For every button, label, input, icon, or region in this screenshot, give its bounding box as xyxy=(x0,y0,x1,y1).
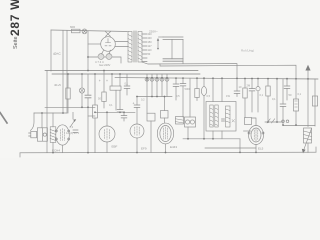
svg-text:127: 127 xyxy=(148,45,153,48)
capacitor C15 xyxy=(117,90,123,112)
mains plug xyxy=(29,131,37,137)
wire bottom bus y139 xyxy=(183,138,240,140)
lamp symbol xyxy=(79,74,84,107)
trimmer circles pair xyxy=(282,120,285,123)
heater choke Lb xyxy=(106,54,112,60)
wire rectifier anode taps xyxy=(115,42,128,47)
antenna coil L3 xyxy=(50,127,56,143)
svg-text:EF9: EF9 xyxy=(141,147,147,151)
capacitor C16 plus xyxy=(133,97,140,125)
svg-text:150: 150 xyxy=(148,41,153,44)
tube V5 EL output xyxy=(157,123,173,153)
resistor R8 xyxy=(266,79,270,122)
svg-text:0,1: 0,1 xyxy=(260,93,264,97)
filter capacitor C1 xyxy=(159,37,184,64)
tube V4 EF9 xyxy=(130,124,144,153)
wire horizontal y122 right xyxy=(265,121,283,123)
transformer T1 secondary winding xyxy=(138,32,142,63)
capacitor C17 xyxy=(124,74,130,95)
heater choke La xyxy=(98,54,104,60)
wire heater links xyxy=(88,57,121,63)
svg-text:5000: 5000 xyxy=(185,87,191,91)
capacitor C7 xyxy=(180,78,186,117)
resistor R10 xyxy=(176,117,184,125)
tap labels xyxy=(148,33,153,56)
bus wire 3 xyxy=(115,78,318,79)
svg-text:0,2: 0,2 xyxy=(141,98,145,102)
tube V2 ECH4 xyxy=(55,125,69,153)
bus wire 2 xyxy=(52,73,200,75)
ground rail xyxy=(20,151,316,154)
output transformer box xyxy=(206,102,236,132)
capacitor C14 xyxy=(121,112,127,121)
capacitor C19 xyxy=(73,130,78,132)
wire drop x315 xyxy=(312,79,317,126)
wire drop x190 xyxy=(189,78,191,117)
electrolytic C8 xyxy=(201,78,206,139)
svg-text:0,1: 0,1 xyxy=(125,82,129,86)
wire horizontal y112 xyxy=(95,111,135,113)
wire tube grid tap xyxy=(244,130,251,132)
wire mains drop x67 xyxy=(66,31,68,113)
wire horizontal y113 xyxy=(34,112,67,114)
capacitor C12 xyxy=(280,79,286,125)
svg-text:0,1: 0,1 xyxy=(109,103,113,107)
svg-text:1W: 1W xyxy=(226,94,230,98)
IF transformer box 2 xyxy=(161,97,169,124)
wire B+ line 2 xyxy=(160,64,296,79)
svg-text:E443: E443 xyxy=(170,145,177,149)
trimmer row under transformer xyxy=(145,74,169,97)
transformer T1 primary winding xyxy=(128,32,132,63)
resistor R6 xyxy=(195,78,199,100)
wire plug feed curl xyxy=(31,113,35,131)
svg-text:600: 600 xyxy=(70,25,75,29)
svg-text:40+5: 40+5 xyxy=(54,83,61,87)
wire mains drop x63 xyxy=(62,31,64,113)
ground hook right xyxy=(315,147,317,152)
svg-text:110: 110 xyxy=(148,49,152,52)
page title "Seite 287 W" vertical text xyxy=(8,0,22,49)
resistor R3 xyxy=(93,74,98,152)
svg-text:0,5: 0,5 xyxy=(207,94,211,98)
bus wire 1 xyxy=(45,70,198,72)
wire y148 xyxy=(205,147,256,149)
svg-text:6,3: 6,3 xyxy=(70,125,74,129)
output transformer winding b xyxy=(215,105,218,127)
svg-text:+: + xyxy=(106,79,108,83)
capacitor C9 xyxy=(234,78,240,96)
rectifier tube V1 AZ1 xyxy=(101,37,116,52)
resistor R4 xyxy=(102,71,106,109)
wire drop x277 xyxy=(276,79,278,122)
tube V3 EBF xyxy=(99,112,115,152)
svg-text:2M: 2M xyxy=(247,84,251,88)
wire mains top rail xyxy=(51,30,129,32)
svg-text:40+C: 40+C xyxy=(53,52,61,56)
svg-text:Seite: Seite xyxy=(13,36,19,49)
wire tick y116 xyxy=(88,115,95,117)
capacitor C18 xyxy=(222,119,235,122)
wire coil bottom xyxy=(52,142,54,152)
scattered value labels xyxy=(98,82,302,108)
trimmer C11 xyxy=(256,79,260,113)
capacitor C2 xyxy=(85,74,91,152)
svg-text:1/2(A) 4+ 1: 1/2(A) 4+ 1 xyxy=(66,131,79,135)
wire drop x47 to ground xyxy=(46,71,48,153)
svg-text:0,1: 0,1 xyxy=(272,97,276,101)
scan artifact smudge left edge xyxy=(0,113,7,124)
svg-text:EL5: EL5 xyxy=(258,147,264,151)
wire rectifier left xyxy=(88,43,101,45)
wire drop x222 xyxy=(221,78,223,101)
arrow ticks xyxy=(267,119,275,123)
svg-text:+: + xyxy=(99,79,101,83)
transformer T1 core xyxy=(134,31,136,62)
wire drop x240 xyxy=(239,139,241,153)
IF transformer box 1 xyxy=(147,78,155,153)
capacitor C10 xyxy=(249,79,255,113)
output transformer winding a xyxy=(210,105,213,127)
svg-text:0,1: 0,1 xyxy=(298,92,302,96)
grid stopper box xyxy=(245,118,257,126)
antenna socket box xyxy=(37,128,47,141)
wire rectifier cathode pins xyxy=(102,50,111,54)
resistor R9 xyxy=(293,79,298,125)
transformer voltage taps xyxy=(142,34,147,62)
svg-text:Ruf.(Urtg): Ruf.(Urtg) xyxy=(241,49,254,53)
svg-text:EBF: EBF xyxy=(112,145,118,149)
wire horizontal y125 xyxy=(283,125,315,127)
ground hook left xyxy=(19,153,21,157)
polarity marks xyxy=(99,79,108,83)
svg-text:Ger.220V: Ger.220V xyxy=(99,63,111,67)
svg-text:0,5: 0,5 xyxy=(176,94,180,98)
switch X mark above rectifier xyxy=(106,32,111,37)
wire drop x51 xyxy=(50,30,52,71)
wire drop x308 xyxy=(307,79,309,127)
svg-text:200: 200 xyxy=(148,37,153,40)
svg-text:220V~: 220V~ xyxy=(149,30,158,34)
resistor R1 xyxy=(66,74,70,113)
wire transformer bottoms xyxy=(213,131,222,139)
svg-text:287 W: 287 W xyxy=(8,0,22,36)
switch cluster with contacts xyxy=(185,117,196,139)
resistor R7 xyxy=(243,79,247,118)
capacitor C6 xyxy=(173,78,179,100)
resistor R5 horizontal xyxy=(110,74,121,110)
wire coil feed xyxy=(52,113,54,127)
wire drop x213 xyxy=(212,78,214,101)
speaker arrow symbol xyxy=(305,65,310,79)
wire horizontal y107 xyxy=(45,106,95,108)
voltage selector S1 xyxy=(157,38,159,49)
wire B+ line 1 xyxy=(142,62,237,78)
wire AVC horizontal xyxy=(137,96,172,98)
wire socket feed xyxy=(41,113,43,128)
AVC arrow xyxy=(71,112,77,126)
wire drop x88 xyxy=(87,31,89,71)
fuse Si 600 xyxy=(70,25,87,34)
output transformer winding c xyxy=(226,106,231,127)
tube V6 EL50 xyxy=(248,126,264,153)
potentiometer P1 xyxy=(302,128,312,153)
capacitor C13 xyxy=(284,79,290,100)
